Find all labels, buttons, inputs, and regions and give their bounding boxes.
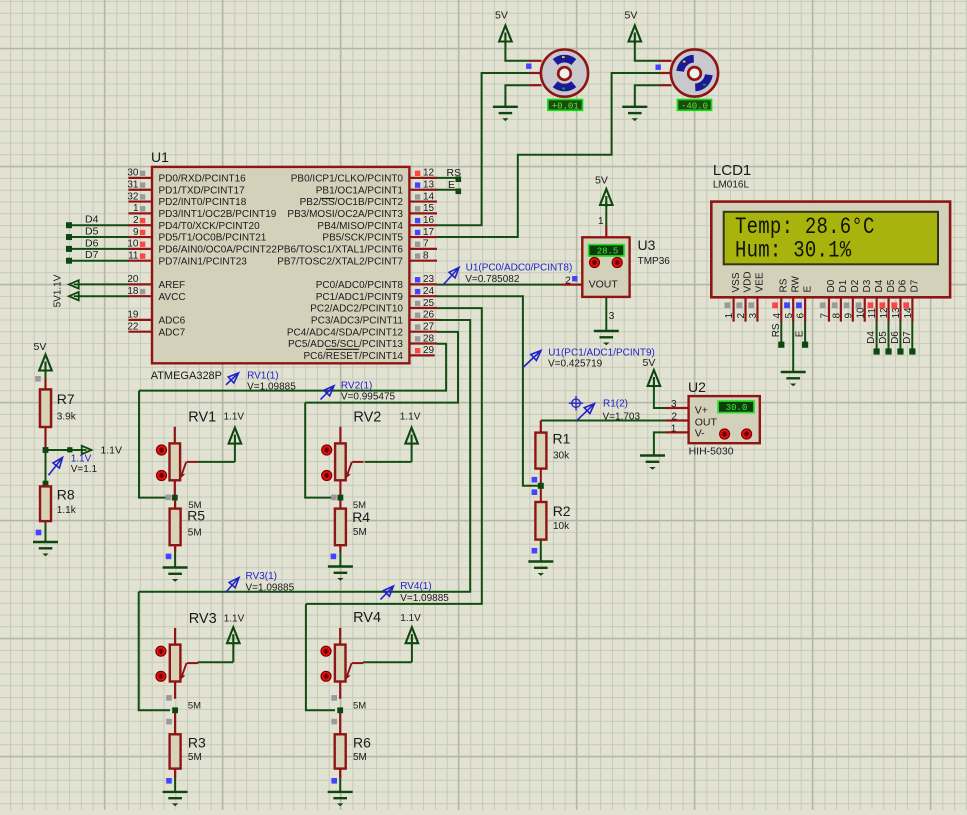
svg-text:AREF: AREF xyxy=(159,280,186,291)
svg-text:RV3(1): RV3(1) xyxy=(246,571,278,582)
wire R3 bottom to ground xyxy=(174,769,176,792)
svg-text:R1: R1 xyxy=(553,431,571,447)
U1 right pin 8 PB7 xyxy=(409,260,437,262)
svg-text:PB1/OC1A/PCINT1: PB1/OC1A/PCINT1 xyxy=(316,185,404,196)
svg-text:D4: D4 xyxy=(866,331,877,344)
svg-text:23: 23 xyxy=(423,274,435,285)
svg-text:5M: 5M xyxy=(188,528,202,539)
U1 right pin 26 PC3 xyxy=(409,319,437,321)
svg-text:PC4/ADC4/SDA/PCINT12: PC4/ADC4/SDA/PCINT12 xyxy=(287,327,404,338)
power arrows AREF 1.1V / AVCC 5V xyxy=(69,280,79,288)
U1 left pin 19 ADC6 xyxy=(128,319,152,321)
U2 display 30.0 xyxy=(718,401,754,413)
svg-text:11: 11 xyxy=(128,251,139,262)
svg-text:LM016L: LM016L xyxy=(713,180,750,191)
svg-text:V=0.995475: V=0.995475 xyxy=(341,392,396,403)
probe RV1(1) xyxy=(226,373,239,385)
wire 5V to U2 V+ xyxy=(654,385,666,409)
wire D4 net to U1 pin2 xyxy=(69,224,129,226)
svg-text:HIH-5030: HIH-5030 xyxy=(689,446,734,458)
svg-text:RV1(1): RV1(1) xyxy=(247,370,279,381)
LCD1 net stub RS xyxy=(778,342,784,348)
LCD1 pin 10 D3 xyxy=(864,297,866,321)
wire LCD E pin6 down xyxy=(804,321,806,344)
ground U2 xyxy=(640,456,665,462)
servo M1 display +0.01 xyxy=(548,100,583,111)
svg-text:PC2/ADC2/PCINT10: PC2/ADC2/PCINT10 xyxy=(310,304,403,315)
svg-text:E: E xyxy=(448,179,455,191)
svg-text:1: 1 xyxy=(133,203,139,214)
svg-text:U2: U2 xyxy=(688,379,706,395)
svg-text:5M: 5M xyxy=(353,701,366,712)
U1 left pin 32 PD2 xyxy=(128,200,152,202)
svg-text:VSS: VSS xyxy=(731,272,742,292)
svg-text:R6: R6 xyxy=(353,735,371,751)
svg-text:RV4(1): RV4(1) xyxy=(400,581,432,592)
wire LCD D7 pin14 down xyxy=(911,321,913,351)
svg-text:PD3/INT1/OC2B/PCINT19: PD3/INT1/OC2B/PCINT19 xyxy=(159,209,277,220)
wire R8 bottom to ground xyxy=(45,521,47,542)
svg-text:PC3/ADC3/PCINT11: PC3/ADC3/PCINT11 xyxy=(311,315,404,326)
svg-text:17: 17 xyxy=(423,227,435,238)
svg-text:1.1V: 1.1V xyxy=(100,445,122,457)
svg-text:V=1.09885: V=1.09885 xyxy=(246,582,295,593)
svg-text:PD7/AIN1/PCINT23: PD7/AIN1/PCINT23 xyxy=(159,256,248,267)
svg-text:31: 31 xyxy=(127,180,139,191)
LCD1 net stubs D4-D7 xyxy=(874,348,880,354)
svg-text:1.1V: 1.1V xyxy=(224,613,245,624)
svg-text:1: 1 xyxy=(671,423,677,434)
svg-text:19: 19 xyxy=(127,310,139,321)
svg-text:AVCC: AVCC xyxy=(159,292,186,303)
svg-text:V=1.09885: V=1.09885 xyxy=(400,593,449,604)
U1 right pin 15 PB3 xyxy=(409,212,437,214)
svg-text:6: 6 xyxy=(796,313,807,319)
svg-text:18: 18 xyxy=(127,286,139,297)
svg-text:7: 7 xyxy=(820,313,831,319)
power 1.1V arrow right of divider xyxy=(82,446,92,454)
probe R1(2) with crosshair xyxy=(572,399,580,407)
svg-text:1.1V: 1.1V xyxy=(400,613,421,624)
svg-text:RS: RS xyxy=(771,323,782,337)
U2 pin2 OUT xyxy=(666,419,689,421)
ground R2 xyxy=(528,562,553,568)
svg-text:PB3/MOSI/OC2A/PCINT3: PB3/MOSI/OC2A/PCINT3 xyxy=(287,209,403,220)
LCD1 screen xyxy=(724,212,938,264)
wire R2 bottom to ground xyxy=(540,540,542,562)
svg-text:4: 4 xyxy=(772,313,783,319)
LCD1 pin 6 E xyxy=(804,297,806,321)
svg-text:25: 25 xyxy=(423,298,435,309)
probe U1(PC0/ADC0/PCINT8) xyxy=(443,268,459,286)
wire 5V to R7 top xyxy=(45,370,47,390)
U1 overline on RESET (pin29 row) xyxy=(326,348,359,350)
svg-text:28: 28 xyxy=(423,333,435,344)
LCD1 pin 8 D1 xyxy=(840,297,842,321)
LCD1 net stub E xyxy=(802,342,808,348)
svg-text:10: 10 xyxy=(855,307,866,319)
svg-text:5V: 5V xyxy=(643,357,656,369)
svg-text:PD2/INT0/PCINT18: PD2/INT0/PCINT18 xyxy=(159,197,247,208)
resistor R1 30k xyxy=(540,421,542,433)
svg-text:PC0/ADC0/PCINT8: PC0/ADC0/PCINT8 xyxy=(316,280,404,291)
svg-text:VDD: VDD xyxy=(743,271,754,292)
resistor R2 10k xyxy=(535,502,546,540)
svg-text:OUT: OUT xyxy=(695,416,718,428)
svg-text:2: 2 xyxy=(133,215,139,226)
svg-text:R3: R3 xyxy=(188,735,206,751)
svg-text:R7: R7 xyxy=(57,391,75,407)
svg-text:V+: V+ xyxy=(695,404,708,416)
wire AVCC to 5V arrow xyxy=(79,295,129,297)
ground U3 xyxy=(594,331,619,337)
U3 down button xyxy=(612,258,622,268)
svg-text:5M: 5M xyxy=(353,752,367,763)
svg-text:26: 26 xyxy=(423,310,435,321)
svg-text:R2: R2 xyxy=(553,503,571,519)
wire R1 top to U2 OUT xyxy=(541,420,666,422)
wire R6 bottom to ground xyxy=(339,769,341,792)
wire D6 net to U1 pin10 xyxy=(69,248,129,250)
svg-text:VOUT: VOUT xyxy=(589,279,619,291)
svg-text:V=1.703: V=1.703 xyxy=(603,411,641,422)
wire D7 net to U1 pin11 xyxy=(69,260,129,262)
svg-text:5V: 5V xyxy=(625,10,638,22)
resistor R5 5M xyxy=(174,498,176,509)
LCD1 pin 4 RS xyxy=(780,297,782,321)
wire LCD RS pin4 down xyxy=(780,321,782,344)
svg-text:3.9k: 3.9k xyxy=(57,412,77,423)
junction R1/R2 xyxy=(538,483,544,489)
wire U1 pin27 to RV2 net xyxy=(305,332,458,403)
svg-text:10: 10 xyxy=(127,239,139,250)
IC U1 ATMEGA328P body xyxy=(152,167,409,363)
svg-text:PB4/MISO/PCINT4: PB4/MISO/PCINT4 xyxy=(317,221,403,232)
svg-text:PB5/SCK/PCINT5: PB5/SCK/PCINT5 xyxy=(322,233,403,244)
probe RV2(1) xyxy=(321,386,335,400)
U1 overline on SS (pin14 row) xyxy=(321,198,334,200)
wire U3 pin3 to ground xyxy=(605,297,607,331)
resistor R3 5M xyxy=(174,710,176,734)
wire RV3 bracket down to RV3 bottom junction xyxy=(139,592,170,711)
svg-text:R4: R4 xyxy=(352,509,370,525)
svg-text:8: 8 xyxy=(423,251,429,262)
U1 left pin 31 PD1 xyxy=(128,189,152,191)
U1 left pin 2 PD4 xyxy=(128,224,152,226)
svg-text:15: 15 xyxy=(423,203,435,214)
wire motor1 pin2 to U1 pin16 (PB4) xyxy=(437,73,530,225)
resistor R7 3.9k xyxy=(44,379,46,390)
U3 display 28.5 xyxy=(589,245,625,256)
svg-text:VEE: VEE xyxy=(755,272,766,292)
wire LCD D4 pin11 down xyxy=(876,321,878,351)
svg-text:ATMEGA328P: ATMEGA328P xyxy=(151,370,222,382)
svg-text:30k: 30k xyxy=(553,451,570,462)
svg-text:E: E xyxy=(802,286,813,293)
svg-text:D7: D7 xyxy=(910,279,921,292)
U2 down button xyxy=(742,429,752,439)
svg-text:1: 1 xyxy=(598,216,604,227)
resistor R6 5M xyxy=(339,710,341,734)
wire divider junction to 1.1V right arrow xyxy=(46,449,81,451)
U1 right pin 23 PC0 xyxy=(409,283,437,285)
ground R6 xyxy=(328,792,353,798)
ground LCD RW xyxy=(781,372,806,378)
U1 right pin 24 PC1 xyxy=(409,295,437,297)
U1 left pin 30 PD0 xyxy=(128,177,152,179)
svg-text:U1(PC1/ADC1/PCINT9): U1(PC1/ADC1/PCINT9) xyxy=(548,347,655,358)
svg-text:RW: RW xyxy=(790,275,801,292)
svg-text:22: 22 xyxy=(127,321,139,332)
svg-text:D1: D1 xyxy=(838,279,849,292)
LCD1 pin 1 VSS xyxy=(732,297,734,321)
svg-text:32: 32 xyxy=(127,191,139,202)
wire U1 pin24 to R1/R2 junction (ADC1 net) xyxy=(437,296,538,486)
svg-text:D6: D6 xyxy=(890,331,901,344)
svg-text:-40.0: -40.0 xyxy=(681,101,708,111)
resistor R8 1.1k xyxy=(40,486,51,521)
U1 right pin 28 PC5 xyxy=(409,342,437,344)
svg-text:30.0: 30.0 xyxy=(726,403,748,413)
svg-text:ADC6: ADC6 xyxy=(159,315,186,326)
probe RV3(1) xyxy=(226,578,239,593)
svg-text:2: 2 xyxy=(672,411,678,422)
svg-text:9: 9 xyxy=(843,313,854,319)
LCD1 pin 11 D4 xyxy=(876,297,878,321)
svg-text:D5: D5 xyxy=(878,331,889,344)
wire 5V to motor1 pin1 xyxy=(505,42,529,61)
LCD1 pin 2 VDD xyxy=(744,297,746,321)
svg-text:D7: D7 xyxy=(85,249,99,261)
svg-text:D3: D3 xyxy=(862,279,873,292)
svg-text:RV2(1): RV2(1) xyxy=(341,381,373,392)
svg-text:10k: 10k xyxy=(553,521,570,532)
svg-text:D2: D2 xyxy=(850,279,861,292)
LCD1 pin 12 D5 xyxy=(887,297,889,321)
svg-text:V=1.1: V=1.1 xyxy=(71,464,98,475)
U1 right pin 14 PB2 xyxy=(409,200,437,202)
svg-text:PC1/ADC1/PCINT9: PC1/ADC1/PCINT9 xyxy=(316,292,404,303)
svg-text:U1: U1 xyxy=(151,149,169,165)
svg-text:PD6/AIN0/OC0A/PCINT22: PD6/AIN0/OC0A/PCINT22 xyxy=(159,244,278,255)
svg-text:5V1.1V: 5V1.1V xyxy=(53,274,64,307)
svg-text:9: 9 xyxy=(133,227,139,238)
ground motor1 xyxy=(493,107,518,113)
U1 left pin 1 PD3 xyxy=(128,212,152,214)
wire R7 bottom to junction to R8 top xyxy=(44,427,46,448)
svg-text:D6: D6 xyxy=(85,237,99,249)
svg-text:5M: 5M xyxy=(188,500,201,511)
svg-text:13: 13 xyxy=(423,180,435,191)
svg-text:ADC7: ADC7 xyxy=(159,327,186,338)
resistor R4 5M xyxy=(339,498,341,509)
wire R1 bottom junction to R2 xyxy=(540,469,542,503)
svg-text:+0.01: +0.01 xyxy=(552,101,579,111)
svg-text:7: 7 xyxy=(423,239,429,250)
LCD1 body xyxy=(711,202,950,298)
svg-text:5V: 5V xyxy=(595,175,608,187)
wire U1 pin25 to RV4 net xyxy=(306,308,482,604)
svg-text:D6: D6 xyxy=(898,279,909,292)
svg-text:5: 5 xyxy=(784,313,795,319)
svg-text:RV1: RV1 xyxy=(188,409,216,425)
LCD1 pin 7 D0 xyxy=(828,297,830,321)
U1 left pin 20 AREF xyxy=(128,283,152,285)
U1 right pin 12 PB0 xyxy=(409,177,437,179)
svg-text:2: 2 xyxy=(565,275,571,286)
svg-text:14: 14 xyxy=(903,307,914,319)
svg-text:12: 12 xyxy=(879,307,890,319)
svg-text:PB2/SS/OC1B/PCINT2: PB2/SS/OC1B/PCINT2 xyxy=(300,197,404,208)
svg-text:RV2: RV2 xyxy=(353,409,381,425)
svg-text:D4: D4 xyxy=(874,279,885,292)
wire motor1 pin3 to ground xyxy=(505,85,529,106)
U2 pin3 V+ xyxy=(666,407,689,409)
svg-text:5M: 5M xyxy=(353,500,366,511)
svg-text:Hum: 30.1%: Hum: 30.1% xyxy=(735,239,852,264)
svg-text:TMP36: TMP36 xyxy=(638,256,671,267)
probe U1(PC1/ADC1/PCINT9) xyxy=(524,351,542,368)
wire motor2 pin3 to ground xyxy=(635,85,660,106)
svg-text:PB7/TOSC2/XTAL2/PCINT7: PB7/TOSC2/XTAL2/PCINT7 xyxy=(277,256,403,267)
svg-text:U1(PC0/ADC0/PCINT8): U1(PC0/ADC0/PCINT8) xyxy=(466,263,573,274)
wire U1 pin26 to RV3 net xyxy=(139,320,471,592)
svg-text:PD0/RXD/PCINT16: PD0/RXD/PCINT16 xyxy=(159,174,247,185)
svg-text:R1(2): R1(2) xyxy=(603,398,628,409)
svg-text:V=0.785082: V=0.785082 xyxy=(465,274,520,285)
probe label 1.1V at divider xyxy=(49,458,63,476)
LCD1 pin 5 RW xyxy=(792,297,794,321)
probe RV4(1) xyxy=(381,586,394,600)
wire U2 V- to ground xyxy=(654,432,666,455)
svg-text:D4: D4 xyxy=(85,214,99,226)
svg-text:RS: RS xyxy=(778,278,789,292)
wire RV1 bracket down to RV1 bottom junction xyxy=(139,391,170,498)
U1 right pin 7 PB6 xyxy=(409,248,437,250)
svg-text:12: 12 xyxy=(423,168,435,179)
svg-text:28.5: 28.5 xyxy=(597,247,619,257)
wire U1 pin13 E stub xyxy=(437,189,458,191)
svg-text:1: 1 xyxy=(724,313,735,319)
svg-text:5M: 5M xyxy=(188,701,201,712)
svg-text:11: 11 xyxy=(867,308,878,319)
svg-text:8: 8 xyxy=(831,313,842,319)
wire 5V to motor2 pin1 xyxy=(635,42,660,61)
svg-text:D7: D7 xyxy=(902,331,913,344)
svg-text:PB6/TOSC1/XTAL1/PCINT6: PB6/TOSC1/XTAL1/PCINT6 xyxy=(277,244,403,255)
svg-text:27: 27 xyxy=(423,321,435,332)
svg-text:PC6/RESET/PCINT14: PC6/RESET/PCINT14 xyxy=(304,351,404,362)
U1 left pin 11 PD7 xyxy=(128,260,152,262)
svg-text:5M: 5M xyxy=(188,752,202,763)
ground R5 xyxy=(163,568,188,574)
U1 right pin 27 PC4 xyxy=(409,331,437,333)
wire LCD D6 pin13 down xyxy=(899,321,901,351)
U1 right pin 16 PB4 xyxy=(409,224,437,226)
wire 5V to U3 pin1 xyxy=(605,203,607,227)
svg-text:1.1V: 1.1V xyxy=(224,411,245,422)
svg-text:D5: D5 xyxy=(85,225,99,237)
svg-text:D5: D5 xyxy=(886,279,897,292)
svg-text:2: 2 xyxy=(736,313,747,319)
motor/servo M2 xyxy=(660,60,672,62)
svg-text:16: 16 xyxy=(423,215,435,226)
svg-text:V=1.09885: V=1.09885 xyxy=(247,382,296,393)
wire U1 pin28 to RV1 net xyxy=(139,344,446,391)
svg-text:1.1V: 1.1V xyxy=(400,411,421,422)
ground R8 xyxy=(33,542,58,548)
U1 right pin 17 PB5 xyxy=(409,236,437,238)
svg-text:14: 14 xyxy=(423,191,435,202)
servo M2 display -40.0 xyxy=(678,100,712,111)
svg-text:5V: 5V xyxy=(34,341,47,353)
svg-text:E: E xyxy=(795,330,806,337)
wire RV4 bracket down to RV4 bottom junction xyxy=(306,604,335,710)
svg-text:PC5/ADC5/SCL/PCINT13: PC5/ADC5/SCL/PCINT13 xyxy=(288,339,403,350)
svg-text:RV3: RV3 xyxy=(189,611,217,627)
U1 left pin 22 ADC7 xyxy=(128,331,152,333)
svg-text:13: 13 xyxy=(891,307,902,319)
svg-text:30: 30 xyxy=(127,168,139,179)
svg-text:3: 3 xyxy=(671,399,677,410)
svg-text:5M: 5M xyxy=(353,527,367,538)
svg-text:U3: U3 xyxy=(638,237,656,253)
svg-text:5V: 5V xyxy=(495,10,508,22)
wire LCD RW pin5 to ground xyxy=(792,321,794,372)
svg-text:3: 3 xyxy=(609,311,615,322)
U1 right pin 13 PB1 xyxy=(409,189,437,191)
svg-text:D0: D0 xyxy=(826,279,837,292)
ground R4 xyxy=(328,567,353,573)
svg-text:20: 20 xyxy=(127,274,139,285)
wire motor2 pin2 to U1 pin17 (PB5) xyxy=(437,73,660,237)
motor/servo M1 xyxy=(530,60,542,62)
U2 up button xyxy=(720,429,730,439)
wire RV2 bracket down to RV2 bottom junction xyxy=(305,403,335,498)
svg-text:24: 24 xyxy=(423,286,435,297)
LCD1 pin 3 VEE xyxy=(756,297,758,321)
svg-text:V=0.425719: V=0.425719 xyxy=(548,359,603,370)
svg-text:Temp: 28.6°C: Temp: 28.6°C xyxy=(735,215,875,240)
wire U1 pin12 RS stub xyxy=(437,177,458,179)
U3 up button xyxy=(590,258,600,268)
svg-text:LCD1: LCD1 xyxy=(713,162,751,179)
wire U1 pin23 to U3 VOUT xyxy=(437,284,562,286)
svg-text:V-: V- xyxy=(695,428,705,440)
wire R4 bottom to ground xyxy=(339,545,341,566)
wire R5 bottom to ground xyxy=(174,545,176,567)
svg-text:PD4/T0/XCK/PCINT20: PD4/T0/XCK/PCINT20 xyxy=(159,221,261,232)
U1 left pin 10 PD6 xyxy=(128,248,152,250)
ground R3 xyxy=(163,792,188,798)
svg-text:RV4: RV4 xyxy=(353,610,381,626)
svg-text:29: 29 xyxy=(423,345,435,356)
U1 left pin 9 PD5 xyxy=(128,236,152,238)
U1 left pin 18 AVCC xyxy=(128,295,152,297)
U1 right pin 29 PC6 xyxy=(409,354,434,356)
svg-text:PD5/T1/OC0B/PCINT21: PD5/T1/OC0B/PCINT21 xyxy=(159,233,267,244)
wire D5 net to U1 pin9 xyxy=(69,236,129,238)
LCD1 pin 14 D7 xyxy=(911,297,913,321)
svg-text:PD1/TXD/PCINT17: PD1/TXD/PCINT17 xyxy=(159,185,246,196)
svg-text:PB0/ICP1/CLKO/PCINT0: PB0/ICP1/CLKO/PCINT0 xyxy=(291,174,404,185)
net labels D4-D7 left of U1 xyxy=(66,222,72,228)
LCD1 pin 9 D2 xyxy=(852,297,854,321)
wire LCD D5 pin12 down xyxy=(888,321,890,351)
U2 pin1 V- xyxy=(666,431,689,433)
ground motor2 xyxy=(622,107,647,113)
wire AREF to 1.1V arrow xyxy=(79,283,129,285)
